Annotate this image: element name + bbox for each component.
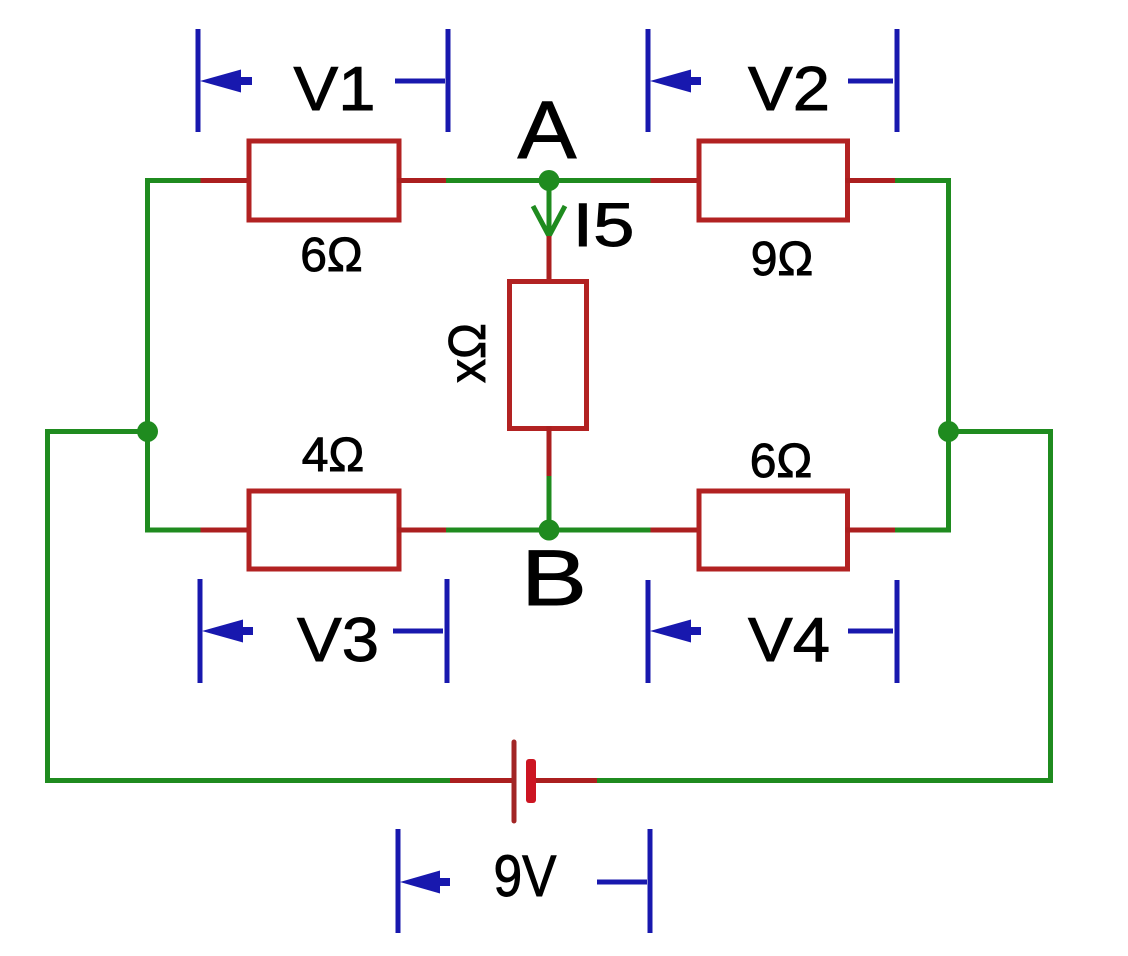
voltage arrow V4: right bar [895, 580, 900, 683]
voltage arrow 9V: right bar [648, 829, 653, 933]
node B junction dot [539, 520, 560, 541]
wire stub (red) from R3 right terminal [397, 528, 446, 533]
label V1 [294, 55, 376, 124]
svg-text:6Ω: 6Ω [750, 435, 813, 488]
voltage arrow 9V: arrowhead and stub [400, 871, 450, 894]
resistor R2 9Ω body [699, 141, 848, 220]
node label B [521, 533, 587, 622]
svg-text:V3: V3 [297, 606, 379, 675]
wire: top-left corner, node A row to left junction [148, 181, 204, 432]
svg-text:9V: 9V [494, 844, 557, 909]
wire stub (red) from R4 right terminal [846, 528, 896, 533]
svg-text:9Ω: 9Ω [751, 233, 814, 286]
battery V5 9V: short thick plate [526, 759, 536, 803]
label V2 [748, 55, 830, 124]
wire: R1 to node A to R2 (green) [446, 178, 651, 183]
voltage arrow V4: right lead line [848, 629, 893, 634]
svg-text:V2: V2 [748, 55, 830, 124]
value label 4Ω (R3) [302, 429, 365, 482]
voltage arrow 9V: right lead line [597, 880, 647, 885]
resistor R3 4Ω body [249, 491, 399, 569]
wire stub (red) into R1 left terminal [201, 178, 252, 183]
battery V5 9V: long thin plate [512, 742, 517, 821]
voltage arrow V1: right lead line [395, 79, 445, 84]
svg-text:B: B [521, 533, 587, 622]
voltage arrow 9V: left bar [396, 829, 401, 933]
right junction dot [938, 421, 959, 442]
wire stub (red) from R1 right terminal [397, 178, 446, 183]
voltage arrow V4: arrowhead and stub [650, 620, 701, 643]
voltage arrow V4: left bar [646, 580, 651, 683]
voltage arrow V3: right bar [445, 579, 450, 683]
svg-text:4Ω: 4Ω [302, 429, 365, 482]
svg-text:V4: V4 [748, 606, 830, 675]
voltage arrow V2: arrowhead and stub [650, 70, 701, 93]
value label xΩ (R5, rotated) [439, 323, 497, 383]
svg-text:xΩ: xΩ [439, 323, 497, 383]
wire stub (red) into R3 left terminal [201, 528, 252, 533]
svg-text:I5: I5 [573, 191, 635, 259]
voltage arrow V2: right bar [895, 29, 900, 132]
left junction dot [137, 421, 158, 442]
wire stub (red) from battery right terminal [536, 778, 597, 783]
wire stub (red) from R5 bottom terminal [547, 426, 552, 476]
node A junction dot [539, 170, 560, 191]
voltage arrow V3: arrowhead and stub [202, 620, 253, 643]
svg-text:A: A [518, 85, 577, 176]
voltage arrow V3: left bar [198, 579, 203, 683]
wire stub (red) into R5 top terminal [547, 236, 552, 284]
node label A [518, 85, 577, 176]
wire: R4 right up to right junction (green) [895, 432, 949, 531]
voltage arrow V1: left bar [196, 29, 201, 132]
current label I5 [573, 191, 635, 259]
wire stub (red) from R2 right terminal [846, 178, 896, 183]
wire stub (red) into battery left terminal [450, 778, 513, 783]
wire: left junction down and right to R3 (green) [148, 432, 204, 531]
wire: left outer loop, junction to battery (green) [48, 432, 451, 781]
svg-text:V1: V1 [294, 55, 376, 124]
resistor R1 6Ω body [249, 141, 399, 220]
label V4 [748, 606, 830, 675]
current arrow I5 (green, pointing down from node A) [533, 181, 565, 237]
wire: R3 to node B to R4 (green) [446, 528, 651, 533]
wire: top-right corner down to right junction [895, 181, 949, 432]
value label 6Ω (R4) [750, 435, 813, 488]
voltage arrow V2: left bar [646, 29, 651, 132]
label 9V (battery value) [494, 844, 557, 909]
value label 6Ω (R1) [300, 229, 363, 282]
svg-text:6Ω: 6Ω [300, 229, 363, 282]
wire: right outer loop, junction to battery (green) [597, 432, 1051, 781]
voltage arrow V1: arrowhead and stub [200, 70, 252, 93]
voltage arrow V1: right bar [446, 29, 451, 132]
wire: R5 bottom to node B (green) [547, 476, 552, 530]
value label 9Ω (R2) [751, 233, 814, 286]
resistor R5 xΩ body (vertical) [510, 282, 587, 429]
label V3 [297, 606, 379, 675]
wire stub (red) into R2 left terminal [651, 178, 702, 183]
voltage arrow V2: right lead line [848, 79, 893, 84]
voltage arrow V3: right lead line [393, 629, 443, 634]
wire stub (red) into R4 left terminal [651, 528, 702, 533]
resistor R4 6Ω body [699, 491, 848, 569]
